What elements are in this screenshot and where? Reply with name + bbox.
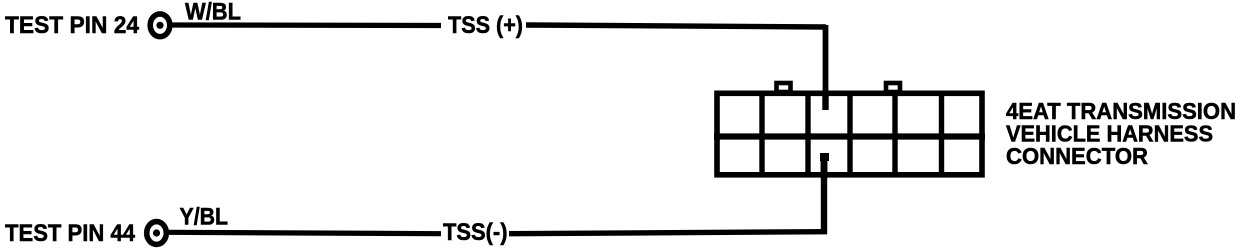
connector cell divider 1 (759, 91, 764, 177)
svg-text:TEST PIN 24: TEST PIN 24 (5, 12, 140, 39)
wire TSS(-) vertical rise into connector pin (821, 160, 827, 234)
wire TSS(+) right segment (526, 25, 826, 27)
test pin 24 terminal (bullseye) (150, 14, 170, 37)
wire TSS(-) pin stub inside bottom cell (820, 153, 829, 178)
connector cell divider 3 (847, 91, 852, 177)
connector cell divider 4 (892, 91, 897, 177)
connector cell divider 2 (805, 91, 810, 177)
wire TSS(+) left segment (170, 22, 441, 28)
connector index tab 2 (886, 83, 900, 92)
connector body outline (717, 93, 982, 175)
connector middle divider (714, 133, 985, 139)
svg-text:TSS(-): TSS(-) (443, 219, 508, 246)
wire TSS(+) pin stub inside top cell (822, 93, 828, 110)
wire TSS(-) right segment (509, 232, 827, 234)
wire TSS(-) left segment (167, 232, 441, 233)
svg-text:W/BL: W/BL (185, 0, 241, 26)
wire TSS(+) vertical drop into connector pin (823, 25, 829, 110)
connector cell divider 5 (939, 91, 944, 177)
connector index tab 1 (777, 83, 791, 92)
test pin 44 terminal (bullseye) (147, 222, 167, 245)
svg-text:Y/BL: Y/BL (180, 204, 229, 231)
svg-text:TSS (+): TSS (+) (448, 12, 523, 39)
svg-text:TEST PIN 44: TEST PIN 44 (5, 220, 136, 247)
svg-text:CONNECTOR: CONNECTOR (1006, 143, 1148, 169)
